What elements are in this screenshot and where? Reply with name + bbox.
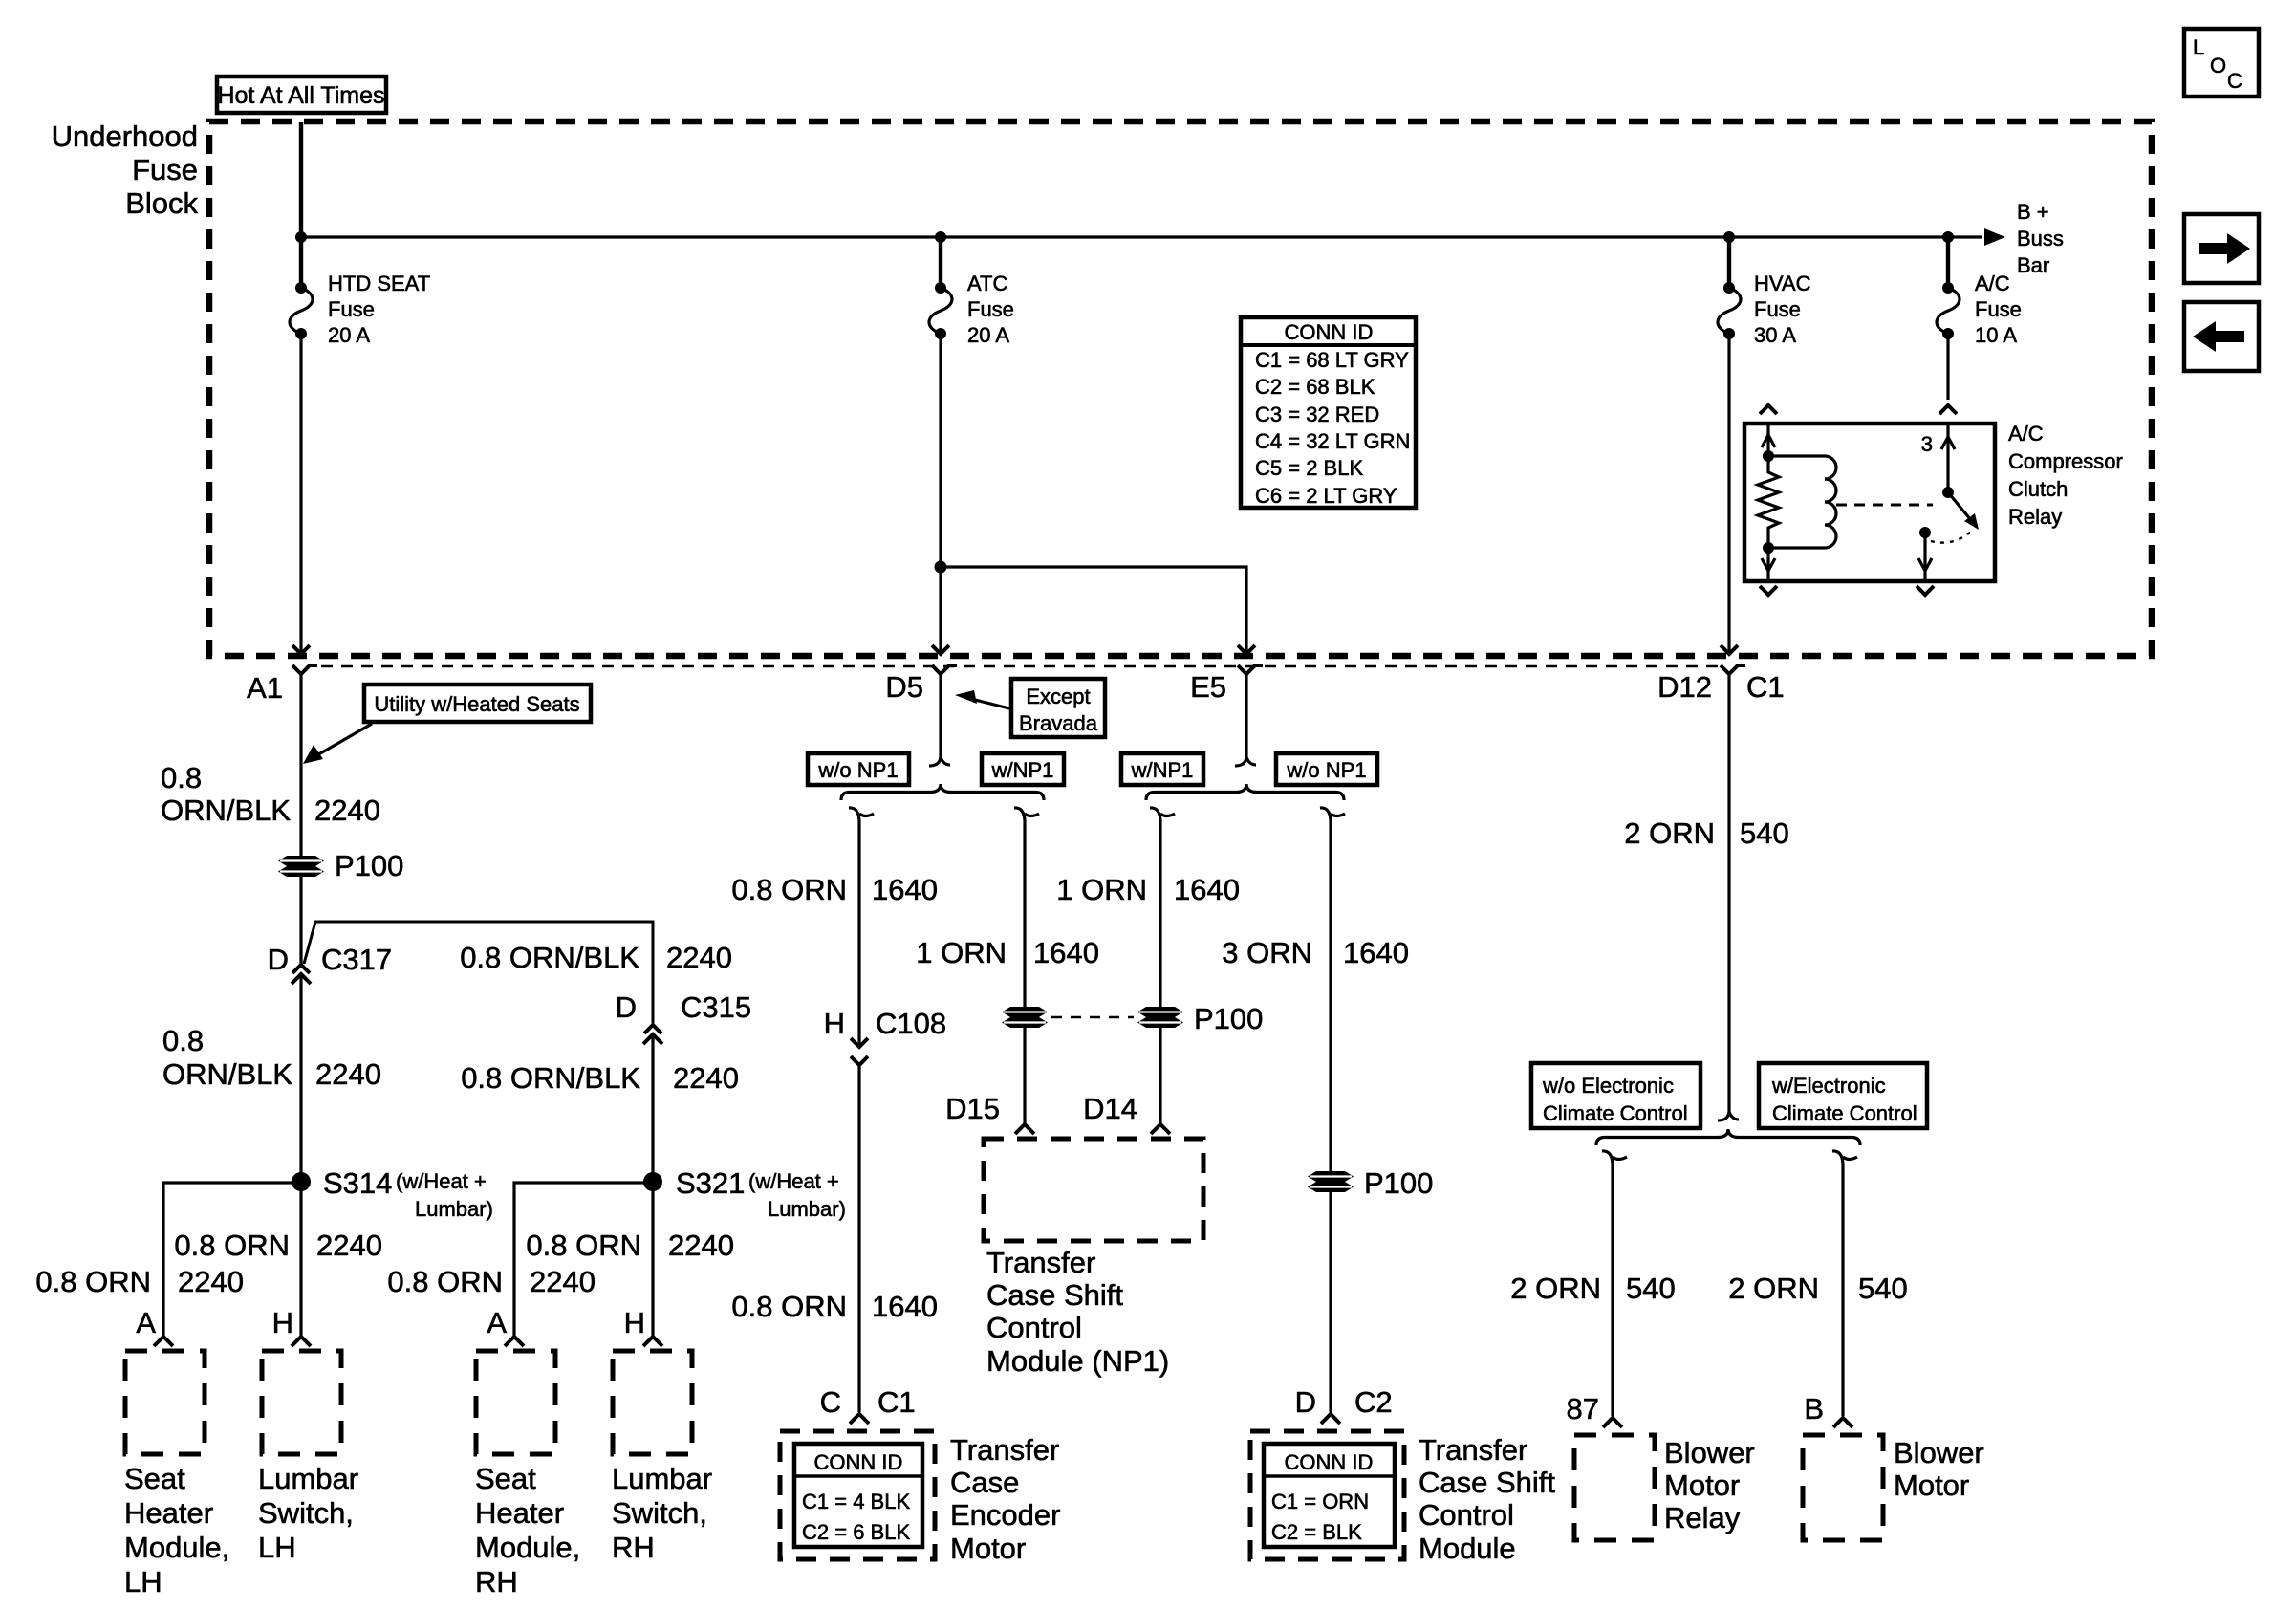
svg-text:Bravada: Bravada [1019, 711, 1098, 735]
svg-text:20 A: 20 A [328, 323, 370, 347]
label 0.8 ORN/BLK 2240 to S314 [162, 1024, 381, 1091]
wire w/NP1 branch hook left [1014, 808, 1039, 820]
wire branch to C315 [304, 922, 653, 1023]
svg-text:Blower: Blower [1894, 1436, 1984, 1469]
label Lumbar Switch LH [258, 1462, 358, 1564]
svg-text:Transfer: Transfer [986, 1246, 1095, 1279]
svg-text:Bar: Bar [2017, 253, 2049, 277]
coil L1 in relay [1768, 456, 1836, 548]
svg-text:540: 540 [1858, 1272, 1908, 1305]
svg-text:10 A: 10 A [1975, 323, 2017, 347]
label A/C Fuse 10 A [1975, 272, 2022, 347]
svg-text:C: C [820, 1385, 841, 1419]
svg-text:w/Electronic: w/Electronic [1771, 1074, 1886, 1098]
splice P100 right [1137, 1007, 1183, 1028]
svg-text:Clutch: Clutch [2008, 477, 2068, 501]
junction node ATC tap [935, 231, 946, 243]
label pin 87 [1567, 1392, 1599, 1425]
wire D5 stub [929, 674, 950, 766]
svg-text:Climate Control: Climate Control [1772, 1101, 1917, 1125]
label 0.8 ORN 2240 LH lumbar [174, 1229, 382, 1262]
splice P100 on A1 wire [278, 856, 324, 877]
label 0.8 ORN 2240 LH seat [35, 1265, 244, 1298]
svg-text:(w/Heat +: (w/Heat + [396, 1169, 487, 1193]
svg-text:L: L [2193, 35, 2204, 59]
module Seat Heater Module LH dashed box [125, 1351, 205, 1454]
svg-text:Fuse: Fuse [967, 297, 1014, 321]
label 1 ORN 1640 right [1056, 873, 1240, 906]
label Transfer Case Shift Control Module [1419, 1433, 1555, 1565]
module Transfer Case Shift Control Module NP1 dashed box [984, 1139, 1203, 1241]
svg-text:Module: Module [1419, 1532, 1516, 1565]
label box w/o NP1 left [808, 753, 909, 785]
svg-text:A: A [136, 1306, 156, 1339]
svg-text:87: 87 [1567, 1392, 1599, 1425]
svg-text:0.8 ORN: 0.8 ORN [174, 1229, 290, 1262]
module Blower Motor Relay dashed box [1574, 1435, 1655, 1540]
svg-text:RH: RH [612, 1531, 655, 1564]
svg-text:B: B [1804, 1392, 1824, 1425]
svg-text:0.8 ORN: 0.8 ORN [387, 1265, 503, 1298]
LOC reference box [2184, 29, 2259, 97]
label 0.8 ORN 2240 RH seat [387, 1265, 596, 1298]
module Lumbar Switch LH dashed box [262, 1351, 341, 1454]
relay pin 3 wire to switch [1941, 424, 1955, 492]
svg-text:Block: Block [125, 186, 198, 220]
svg-text:1640: 1640 [872, 1290, 938, 1323]
wire D12 to ECC split [1718, 674, 1739, 1120]
wire HTD SEAT fuse to A1 [299, 333, 302, 652]
relay actuation dashed link [1836, 504, 1933, 507]
label box w/o Electronic Climate Control [1531, 1063, 1700, 1128]
label pin 3 [1921, 432, 1933, 456]
svg-text:LH: LH [124, 1565, 162, 1599]
svg-text:Switch,: Switch, [258, 1496, 354, 1530]
svg-text:Seat: Seat [124, 1462, 185, 1495]
connector A1 at fuse block [292, 645, 317, 674]
svg-text:Case: Case [950, 1466, 1019, 1499]
label box w/o NP1 right [1276, 753, 1377, 785]
wire branch to E5 [941, 567, 1246, 652]
svg-text:Motor: Motor [950, 1532, 1026, 1565]
module Seat Heater Module RH dashed box [476, 1351, 555, 1454]
svg-text:Fuse: Fuse [132, 153, 198, 186]
connector pin B blower motor [1833, 1418, 1852, 1427]
svg-text:Lumbar): Lumbar) [415, 1197, 493, 1221]
label B+ Buss Bar [2017, 200, 2064, 277]
fuse HVAC 30 A [1718, 282, 1741, 339]
label 0.8 ORN/BLK 2240 branch upper [460, 941, 732, 974]
switch pivot node [1942, 487, 1954, 498]
svg-text:Heater: Heater [475, 1496, 564, 1530]
wire 0.8 ORN 1640 upper [857, 820, 860, 1045]
junction node HVAC tap [1723, 231, 1735, 243]
connector C1 at encoder motor [850, 1414, 869, 1424]
svg-text:Motor: Motor [1664, 1469, 1740, 1502]
label Transfer Case Shift Control Module NP1 [986, 1246, 1169, 1378]
svg-text:Transfer: Transfer [1419, 1433, 1527, 1467]
svg-text:A/C: A/C [1975, 272, 2010, 295]
svg-text:1640: 1640 [1033, 936, 1099, 969]
svg-text:Fuse: Fuse [1975, 297, 2022, 321]
svg-text:0.8 ORN/BLK: 0.8 ORN/BLK [460, 941, 639, 974]
svg-text:P100: P100 [1364, 1166, 1433, 1200]
svg-text:0.8 ORN: 0.8 ORN [526, 1229, 641, 1262]
svg-text:H: H [624, 1306, 645, 1339]
svg-text:C1: C1 [1746, 670, 1785, 704]
pin chevron above relay pin 3 [1939, 405, 1957, 414]
svg-text:2240: 2240 [314, 794, 380, 827]
label pin B [1804, 1392, 1824, 1425]
svg-text:A/C: A/C [2008, 422, 2044, 446]
label ATC Fuse 20 A [967, 272, 1014, 347]
svg-text:Fuse: Fuse [1754, 297, 1801, 321]
connector C315 inline [643, 1025, 662, 1044]
svg-text:0.8 ORN/BLK: 0.8 ORN/BLK [461, 1061, 640, 1095]
label HVAC Fuse 30 A [1754, 272, 1811, 347]
module Transfer Case Shift Control Module dashed box with CONN ID [1250, 1431, 1404, 1559]
connector E5 at fuse block [1238, 645, 1263, 674]
svg-text:P100: P100 [1194, 1002, 1263, 1035]
svg-text:S321: S321 [676, 1166, 745, 1200]
svg-text:CONN ID: CONN ID [814, 1450, 903, 1474]
label 0.8 ORN 1640 lower [731, 1290, 938, 1323]
svg-text:1640: 1640 [872, 873, 938, 906]
svg-text:Buss: Buss [2017, 227, 2064, 250]
svg-text:Underhood: Underhood [52, 120, 198, 153]
svg-text:C1 = 4 BLK: C1 = 4 BLK [802, 1490, 910, 1513]
svg-text:Lumbar: Lumbar [612, 1462, 712, 1495]
connector pin H lumbar switch LH [292, 1337, 311, 1346]
svg-text:C1 = 68 LT GRY: C1 = 68 LT GRY [1255, 348, 1409, 372]
label E5 [1190, 670, 1226, 704]
svg-text:Blower: Blower [1664, 1436, 1755, 1469]
label Underhood Fuse Block [52, 120, 199, 220]
label 0.8 ORN 2240 RH lumbar [526, 1229, 734, 1262]
svg-text:Fuse: Fuse [328, 297, 375, 321]
module Blower Motor dashed box [1803, 1435, 1883, 1540]
label S321 w/Heat + Lumbar [676, 1166, 846, 1221]
svg-text:Seat: Seat [475, 1462, 536, 1495]
svg-text:2 ORN: 2 ORN [1728, 1272, 1819, 1305]
label HTD SEAT Fuse 20 A [328, 272, 430, 347]
label D12 C1 [1657, 670, 1785, 704]
svg-text:ATC: ATC [967, 272, 1007, 295]
label Utility w/Heated Seats with arrow [303, 685, 591, 764]
label Except Bravada with arrow [955, 679, 1105, 737]
label 3 ORN 1640 [1222, 936, 1409, 969]
label pin H RH [624, 1306, 645, 1339]
svg-text:Control: Control [1419, 1498, 1514, 1532]
label Blower Motor [1894, 1436, 1984, 1502]
connector pin H lumbar switch RH [643, 1337, 662, 1346]
svg-text:C: C [2227, 69, 2242, 93]
wire C315 to S321 [651, 1034, 654, 1337]
svg-text:HVAC: HVAC [1754, 272, 1811, 295]
svg-text:C317: C317 [321, 943, 392, 976]
wire P100 to C317 [299, 877, 302, 965]
svg-text:(w/Heat +: (w/Heat + [748, 1169, 839, 1193]
label box w/Electronic Climate Control [1759, 1063, 1927, 1128]
svg-text:HTD SEAT: HTD SEAT [328, 272, 430, 295]
B+ buss bar wire [301, 228, 2005, 246]
label P100 on A1 wire [335, 849, 403, 882]
brace split ECC [1596, 1129, 1860, 1145]
svg-text:ORN/BLK: ORN/BLK [161, 794, 291, 827]
wire w/o NP1 branch hook [849, 808, 874, 820]
label 0.8 ORN/BLK 2240 branch lower [461, 1061, 739, 1095]
label 0.8 ORN/BLK 2240 feed [161, 761, 380, 827]
svg-text:2240: 2240 [673, 1061, 739, 1095]
svg-text:Control: Control [986, 1311, 1082, 1344]
svg-text:1 ORN: 1 ORN [916, 936, 1007, 969]
label 2 ORN 540 feed [1624, 816, 1788, 850]
label Seat Heater Module RH [475, 1462, 580, 1599]
svg-text:C6 = 2 LT GRY: C6 = 2 LT GRY [1255, 484, 1397, 508]
splice S321 [643, 1172, 662, 1191]
label pin H LH [272, 1306, 293, 1339]
relay U1 A/C Compressor Clutch Relay box [1744, 424, 1995, 581]
svg-text:D14: D14 [1083, 1092, 1137, 1125]
svg-text:H: H [272, 1306, 293, 1339]
svg-text:A1: A1 [247, 671, 283, 705]
junction node A/C tap [1942, 231, 1954, 243]
underhood fuse block dashed border [209, 121, 2152, 656]
wire w/NP1 branch hook right [1150, 808, 1175, 820]
switch contact node [1919, 527, 1931, 538]
svg-text:Switch,: Switch, [612, 1496, 707, 1530]
svg-text:w/NP1: w/NP1 [1131, 758, 1194, 782]
svg-text:Case Shift: Case Shift [1419, 1466, 1555, 1499]
svg-text:A: A [487, 1306, 507, 1339]
wire ATC fuse to D5 [939, 333, 942, 652]
wire w/ECC hook [1832, 1151, 1857, 1164]
label P100 middle [1194, 1002, 1263, 1035]
switch throw dotted arc [1931, 532, 1971, 543]
wire A1 to P100 [299, 674, 302, 859]
wire C317 to S314 [299, 974, 302, 1337]
svg-text:Utility w/Heated Seats: Utility w/Heated Seats [374, 692, 579, 716]
wire switch output with down arrow [1918, 533, 1932, 581]
svg-text:2240: 2240 [315, 1057, 381, 1091]
pin chevron below relay coil [1760, 586, 1777, 595]
svg-text:Compressor: Compressor [2008, 449, 2123, 473]
label D C2 [1295, 1385, 1393, 1419]
svg-text:C2: C2 [1354, 1385, 1393, 1419]
svg-text:CONN ID: CONN ID [1285, 320, 1374, 344]
svg-text:LH: LH [258, 1531, 296, 1564]
junction node ATC branch [935, 561, 947, 574]
brace split D5 [841, 784, 1044, 800]
label Hot At All Times [217, 76, 386, 113]
wire E5 stub [1235, 674, 1256, 766]
label Transfer Case Encoder Motor [950, 1433, 1060, 1565]
splice P100 on 3 ORN [1308, 1171, 1354, 1192]
arrow box left [2184, 302, 2259, 371]
fuse A/C 10 A [1937, 282, 1960, 339]
svg-text:D: D [268, 943, 289, 976]
wire A/C feed [1946, 237, 1950, 289]
svg-text:0.8: 0.8 [161, 761, 202, 794]
svg-text:0.8 ORN: 0.8 ORN [35, 1265, 151, 1298]
pin chevron above relay coil [1760, 405, 1777, 414]
svg-text:D12: D12 [1657, 670, 1712, 704]
label pin A RH [487, 1306, 507, 1339]
module Transfer Case Encoder Motor dashed box with CONN ID [780, 1431, 935, 1559]
svg-text:E5: E5 [1190, 670, 1226, 704]
svg-text:30 A: 30 A [1754, 323, 1796, 347]
svg-text:C1: C1 [877, 1385, 916, 1419]
wire 1 ORN 1640 right [1159, 820, 1161, 1124]
svg-text:Encoder: Encoder [950, 1498, 1060, 1532]
wire 0.8 ORN 1640 lower [857, 1065, 860, 1412]
svg-text:Lumbar: Lumbar [258, 1462, 358, 1495]
resistor in relay [1758, 456, 1779, 548]
svg-text:C3 = 32 RED: C3 = 32 RED [1255, 402, 1379, 426]
svg-text:20 A: 20 A [967, 323, 1009, 347]
wire 3 ORN 1640 [1329, 820, 1332, 1412]
wire 2 ORN 540 to blower motor [1841, 1164, 1844, 1416]
connector D5 at fuse block [932, 645, 957, 674]
svg-text:RH: RH [475, 1565, 518, 1599]
splice S314 [292, 1172, 311, 1191]
label D15 [945, 1092, 1000, 1125]
wire hot feed to HTD SEAT fuse [299, 122, 303, 289]
svg-text:2240: 2240 [530, 1265, 596, 1298]
label Lumbar Switch RH [612, 1462, 712, 1564]
svg-text:1640: 1640 [1343, 936, 1409, 969]
svg-text:Heater: Heater [124, 1496, 213, 1530]
label 2 ORN 540 right [1728, 1272, 1907, 1305]
svg-text:2 ORN: 2 ORN [1624, 816, 1715, 850]
connector D14 chevron [1151, 1124, 1170, 1134]
splice P100 left [1002, 1007, 1048, 1028]
switch blade in relay [1948, 492, 1979, 530]
label C C1 [820, 1385, 916, 1419]
svg-text:w/o NP1: w/o NP1 [1286, 758, 1366, 782]
label A/C Compressor Clutch Relay [2008, 422, 2123, 529]
label D C315 [616, 990, 752, 1024]
svg-text:H: H [824, 1007, 845, 1040]
label H C108 [824, 1007, 947, 1040]
connector D12 at fuse block [1721, 645, 1745, 674]
svg-text:ORN/BLK: ORN/BLK [162, 1057, 292, 1091]
svg-text:Lumbar): Lumbar) [768, 1197, 846, 1221]
connector boundary thin dashed line [321, 665, 1721, 668]
wire S321 branch to seat heater module RH [514, 1183, 653, 1337]
svg-text:C5 = 2 BLK: C5 = 2 BLK [1255, 456, 1363, 480]
svg-text:D5: D5 [885, 670, 923, 704]
junction node coil bottom [1763, 542, 1774, 554]
svg-text:C2 = BLK: C2 = BLK [1271, 1520, 1362, 1544]
svg-text:Case Shift: Case Shift [986, 1278, 1123, 1312]
svg-text:w/NP1: w/NP1 [991, 758, 1054, 782]
junction node coil top [1763, 450, 1774, 462]
svg-text:0.8: 0.8 [162, 1024, 204, 1057]
svg-text:1 ORN: 1 ORN [1056, 873, 1147, 906]
svg-text:C315: C315 [681, 990, 751, 1024]
svg-text:540: 540 [1740, 816, 1789, 850]
svg-text:540: 540 [1626, 1272, 1676, 1305]
label 2 ORN 540 left [1510, 1272, 1675, 1305]
arrow box right [2184, 214, 2259, 283]
label Seat Heater Module LH [124, 1462, 229, 1599]
svg-text:Motor: Motor [1894, 1469, 1969, 1502]
wire HVAC feed [1727, 237, 1731, 289]
svg-text:w/o Electronic: w/o Electronic [1542, 1074, 1674, 1098]
svg-text:B +: B + [2017, 200, 2049, 224]
module Lumbar Switch RH dashed box [613, 1351, 692, 1454]
junction node HTD SEAT tap [295, 231, 307, 243]
svg-text:Module (NP1): Module (NP1) [986, 1344, 1169, 1378]
connector D15 chevron [1015, 1124, 1034, 1134]
svg-text:S314: S314 [323, 1166, 392, 1200]
svg-text:Hot At All Times: Hot At All Times [217, 82, 384, 109]
wire 1 ORN 1640 left [1023, 820, 1026, 1124]
svg-text:3 ORN: 3 ORN [1222, 936, 1312, 969]
svg-text:D: D [1295, 1385, 1316, 1419]
wire coil return with down arrow [1762, 548, 1775, 581]
svg-text:C2 = 6 BLK: C2 = 6 BLK [802, 1520, 910, 1544]
svg-text:2240: 2240 [666, 941, 732, 974]
wire w/o NP1 E5 hook [1320, 808, 1345, 820]
splice dashed link [1051, 1016, 1134, 1019]
connector C108 inline [851, 1038, 868, 1065]
svg-text:Transfer: Transfer [950, 1433, 1059, 1467]
svg-text:O: O [2210, 54, 2226, 77]
connector pin 87 blower motor relay [1603, 1418, 1622, 1427]
label A1 [247, 671, 283, 705]
wire HVAC fuse to D12 [1727, 333, 1730, 652]
svg-text:Module,: Module, [475, 1531, 580, 1564]
svg-text:Relay: Relay [2008, 505, 2062, 529]
fuse HTD SEAT 20 A [290, 282, 313, 339]
connector pin A seat heater module RH [505, 1337, 524, 1346]
connector pin A seat heater module LH [154, 1337, 173, 1346]
wire 2 ORN 540 to blower relay [1611, 1164, 1614, 1416]
svg-text:D15: D15 [945, 1092, 1000, 1125]
label pin A LH [136, 1306, 156, 1339]
connector C2 at shift control module [1321, 1414, 1340, 1424]
label P100 on 3 ORN [1364, 1166, 1433, 1200]
wire A/C fuse to relay pin 3 [1946, 333, 1949, 400]
label S314 w/Heat + Lumbar [323, 1166, 493, 1221]
svg-text:C4 = 32 LT GRN: C4 = 32 LT GRN [1255, 429, 1410, 453]
connector C317 inline [292, 965, 311, 984]
fuse ATC 20 A [929, 282, 952, 339]
svg-text:2240: 2240 [316, 1229, 382, 1262]
label D5 [885, 670, 923, 704]
CONN ID table [1241, 317, 1416, 508]
wire S314 branch to seat heater module LH [163, 1183, 301, 1337]
svg-text:D: D [616, 990, 637, 1024]
svg-text:Except: Except [1026, 685, 1090, 708]
label D C317 [268, 943, 393, 976]
label 0.8 ORN 1640 upper [731, 873, 938, 906]
svg-text:w/o NP1: w/o NP1 [817, 758, 898, 782]
svg-text:0.8 ORN: 0.8 ORN [731, 1290, 847, 1323]
svg-text:Module,: Module, [124, 1531, 229, 1564]
svg-text:CONN ID: CONN ID [1285, 1450, 1374, 1474]
svg-text:2240: 2240 [178, 1265, 244, 1298]
label box w/NP1 left [982, 753, 1064, 785]
svg-text:C2 = 68 BLK: C2 = 68 BLK [1255, 375, 1375, 399]
label 1 ORN 1640 left [916, 936, 1099, 969]
wire w/o ECC hook [1602, 1151, 1627, 1164]
svg-text:Relay: Relay [1664, 1501, 1741, 1534]
svg-text:3: 3 [1921, 432, 1933, 456]
pin chevron below relay switch [1917, 586, 1934, 595]
